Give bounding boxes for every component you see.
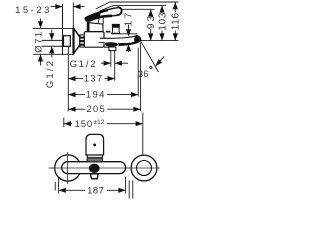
cartridge cap [87, 23, 103, 32]
right escutcheon (front view) [131, 155, 157, 181]
spout front-on (dark) [89, 164, 100, 173]
svg-text:15-23: 15-23 [15, 5, 52, 16]
spout (side view) [99, 35, 142, 48]
ext line spout tip level [141, 40, 179, 42]
hex union nut [80, 35, 85, 47]
svg-text:137: 137 [84, 74, 104, 85]
mixer body (side view) [84, 32, 104, 48]
dim G1/2 wall supply [45, 30, 56, 89]
dim 17 [111, 10, 138, 52]
svg-text:17: 17 [123, 10, 134, 26]
S-union square nut [64, 36, 71, 47]
ext lines top right [110, 2, 179, 9]
dim 137 [68, 46, 114, 112]
front view centerline [49, 167, 160, 169]
mixer body capsule (front view) [62, 162, 126, 174]
dim 36deg angle [138, 41, 164, 79]
diverter knob [112, 24, 120, 33]
svg-text:103: 103 [157, 12, 168, 31]
supply pipe lines in wall [42, 40, 64, 46]
svg-text:116: 116 [171, 12, 182, 30]
dim 15-23 line+arrows [51, 3, 85, 28]
dim Ø71 arrows+text [34, 19, 45, 66]
svg-text:±12: ±12 [93, 119, 104, 126]
svg-text:205: 205 [86, 104, 106, 115]
shower outlet nipple [109, 47, 116, 81]
svg-text:G1/2: G1/2 [70, 59, 98, 70]
dim 205 [68, 43, 140, 116]
outlet nipple (front view) [91, 174, 99, 179]
extra union lines below right escutcheon [129, 180, 133, 198]
dim 116 [171, 2, 182, 41]
lever neck lines [98, 16, 103, 24]
dim 187 [55, 177, 125, 197]
svg-text:36: 36 [138, 69, 149, 79]
svg-text:194: 194 [86, 90, 106, 101]
svg-text:93: 93 [146, 14, 157, 29]
body top step detail [106, 31, 111, 33]
escutcheon cone (side view) [74, 28, 80, 54]
lever base cap (front view) [87, 155, 102, 162]
dim 150±12 [64, 113, 143, 156]
left escutcheon axis line [67, 152, 69, 184]
lever handle (side view) [85, 7, 122, 21]
left escutcheon (front view) [55, 155, 81, 181]
raised lever phantom lines [96, 2, 114, 11]
dim Ø71 ext lines [33, 28, 74, 54]
centerline over capsule [49, 155, 160, 181]
svg-text:187: 187 [87, 185, 104, 196]
dim G1/2 outlet [70, 59, 128, 70]
dim 15-23 text [15, 5, 52, 16]
svg-text:G1/2: G1/2 [45, 59, 56, 88]
svg-text:150: 150 [75, 119, 93, 130]
dim 103 [157, 5, 168, 40]
wall surface line (side view) [62, 4, 64, 55]
dim 194 [68, 48, 138, 101]
lever (front view) [86, 134, 104, 155]
svg-text:Ø71: Ø71 [34, 30, 45, 52]
dim 93 [146, 9, 157, 40]
